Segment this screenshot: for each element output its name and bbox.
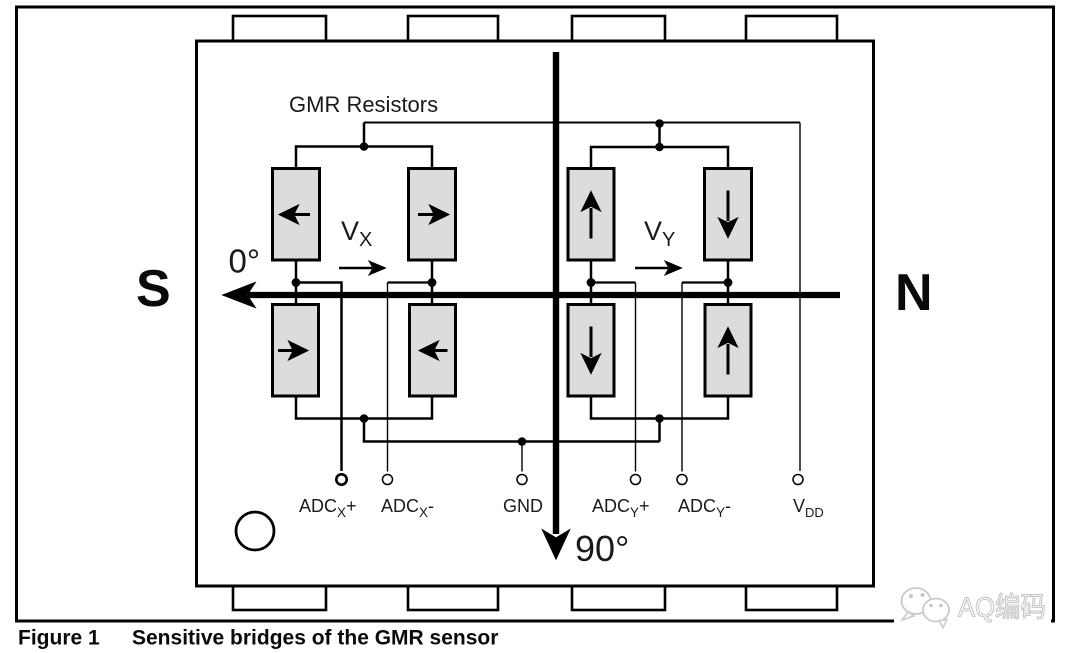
wire: ADCX+ jog [296,283,342,472]
wire: GND drop [521,442,523,472]
svg-text:0°: 0° [229,243,261,280]
resistor R8 [705,305,751,397]
svg-text:Sensitive bridges of the GMR s: Sensitive bridges of the GMR sensor [132,627,498,650]
pad P1 top [233,16,326,41]
wire: ADCY- drop [681,283,683,472]
pad P3 top [572,16,665,41]
node: VDD rail tap [655,119,664,128]
watermark logo [902,588,950,628]
wire: VDD rail [364,122,800,124]
svg-text:AQ编码: AQ编码 [958,592,1046,623]
resistor R5 [568,169,614,261]
pad P8 bottom [746,586,837,610]
wire: right bridge right leg [727,260,730,305]
wire: ADCX- jog [388,281,433,283]
magnetic axis vertical (90 deg arrow) [544,52,569,558]
wire: right bridge top tap [658,124,661,148]
node: right bridge bottom tap [655,414,664,423]
wire: left bridge top rail [296,147,432,170]
svg-text:GMR Resistors: GMR Resistors [289,92,438,117]
node: left bridge top tap [360,142,369,151]
sensor package outline [197,41,874,586]
magnetic axis horizontal (S arrow) [224,284,840,307]
wire: right bridge top rail [591,147,728,169]
wire: ADCX- drop [387,283,389,472]
terminal ADCX- [383,475,393,485]
wire: VDD drop [799,123,801,472]
node: GND junction [518,437,527,446]
node: right bridge top tap [655,143,664,152]
svg-text:S: S [136,260,171,318]
node: left bridge bottom tap [360,414,369,423]
watermark background [894,582,1051,624]
wire: right bridge bottom tap drop [658,419,661,442]
svg-text:GND: GND [503,496,543,516]
wire: left bridge top tap to VDD rail [363,123,366,147]
pad P6 bottom [408,586,498,610]
terminal ADCY- [677,475,687,485]
node: ADCY+ junction [587,278,596,287]
wire: GND run [364,419,660,442]
resistor R4 [410,305,456,397]
pad P2 top [408,16,498,41]
terminal ADCY+ [631,475,641,485]
resistor R1 [273,169,320,261]
wire: left bridge left leg [295,260,298,305]
resistor R6 [705,169,752,261]
wire: left bridge right leg [431,260,434,305]
terminal GND [517,475,527,485]
wire: ADCY- jog [682,281,728,283]
svg-text:N: N [895,264,933,322]
wire: left bridge bottom rail [296,396,432,419]
svg-text:90°: 90° [575,528,629,569]
pad P7 bottom [572,586,665,610]
resistor R7 [568,305,614,397]
svg-text:Figure 1: Figure 1 [18,627,100,650]
arrow VY [635,261,682,275]
resistor R2 [409,169,456,261]
node: ADCY- junction [724,278,733,287]
pin 1 marker circle [236,512,274,550]
node: ADCX- junction [428,278,437,287]
pad P4 top [746,16,837,41]
wire: ADCY+ jog [591,281,636,283]
arrow VX [339,261,386,275]
wire: right bridge left leg [590,260,593,305]
resistor R3 [273,305,319,397]
terminal ADCX+ [336,474,346,484]
wire: right bridge bottom rail [591,396,728,419]
terminal VDD [793,475,803,485]
wire: ADCY+ drop [635,283,637,472]
node: ADCX+ junction [292,278,301,287]
pad P5 bottom [233,586,326,610]
